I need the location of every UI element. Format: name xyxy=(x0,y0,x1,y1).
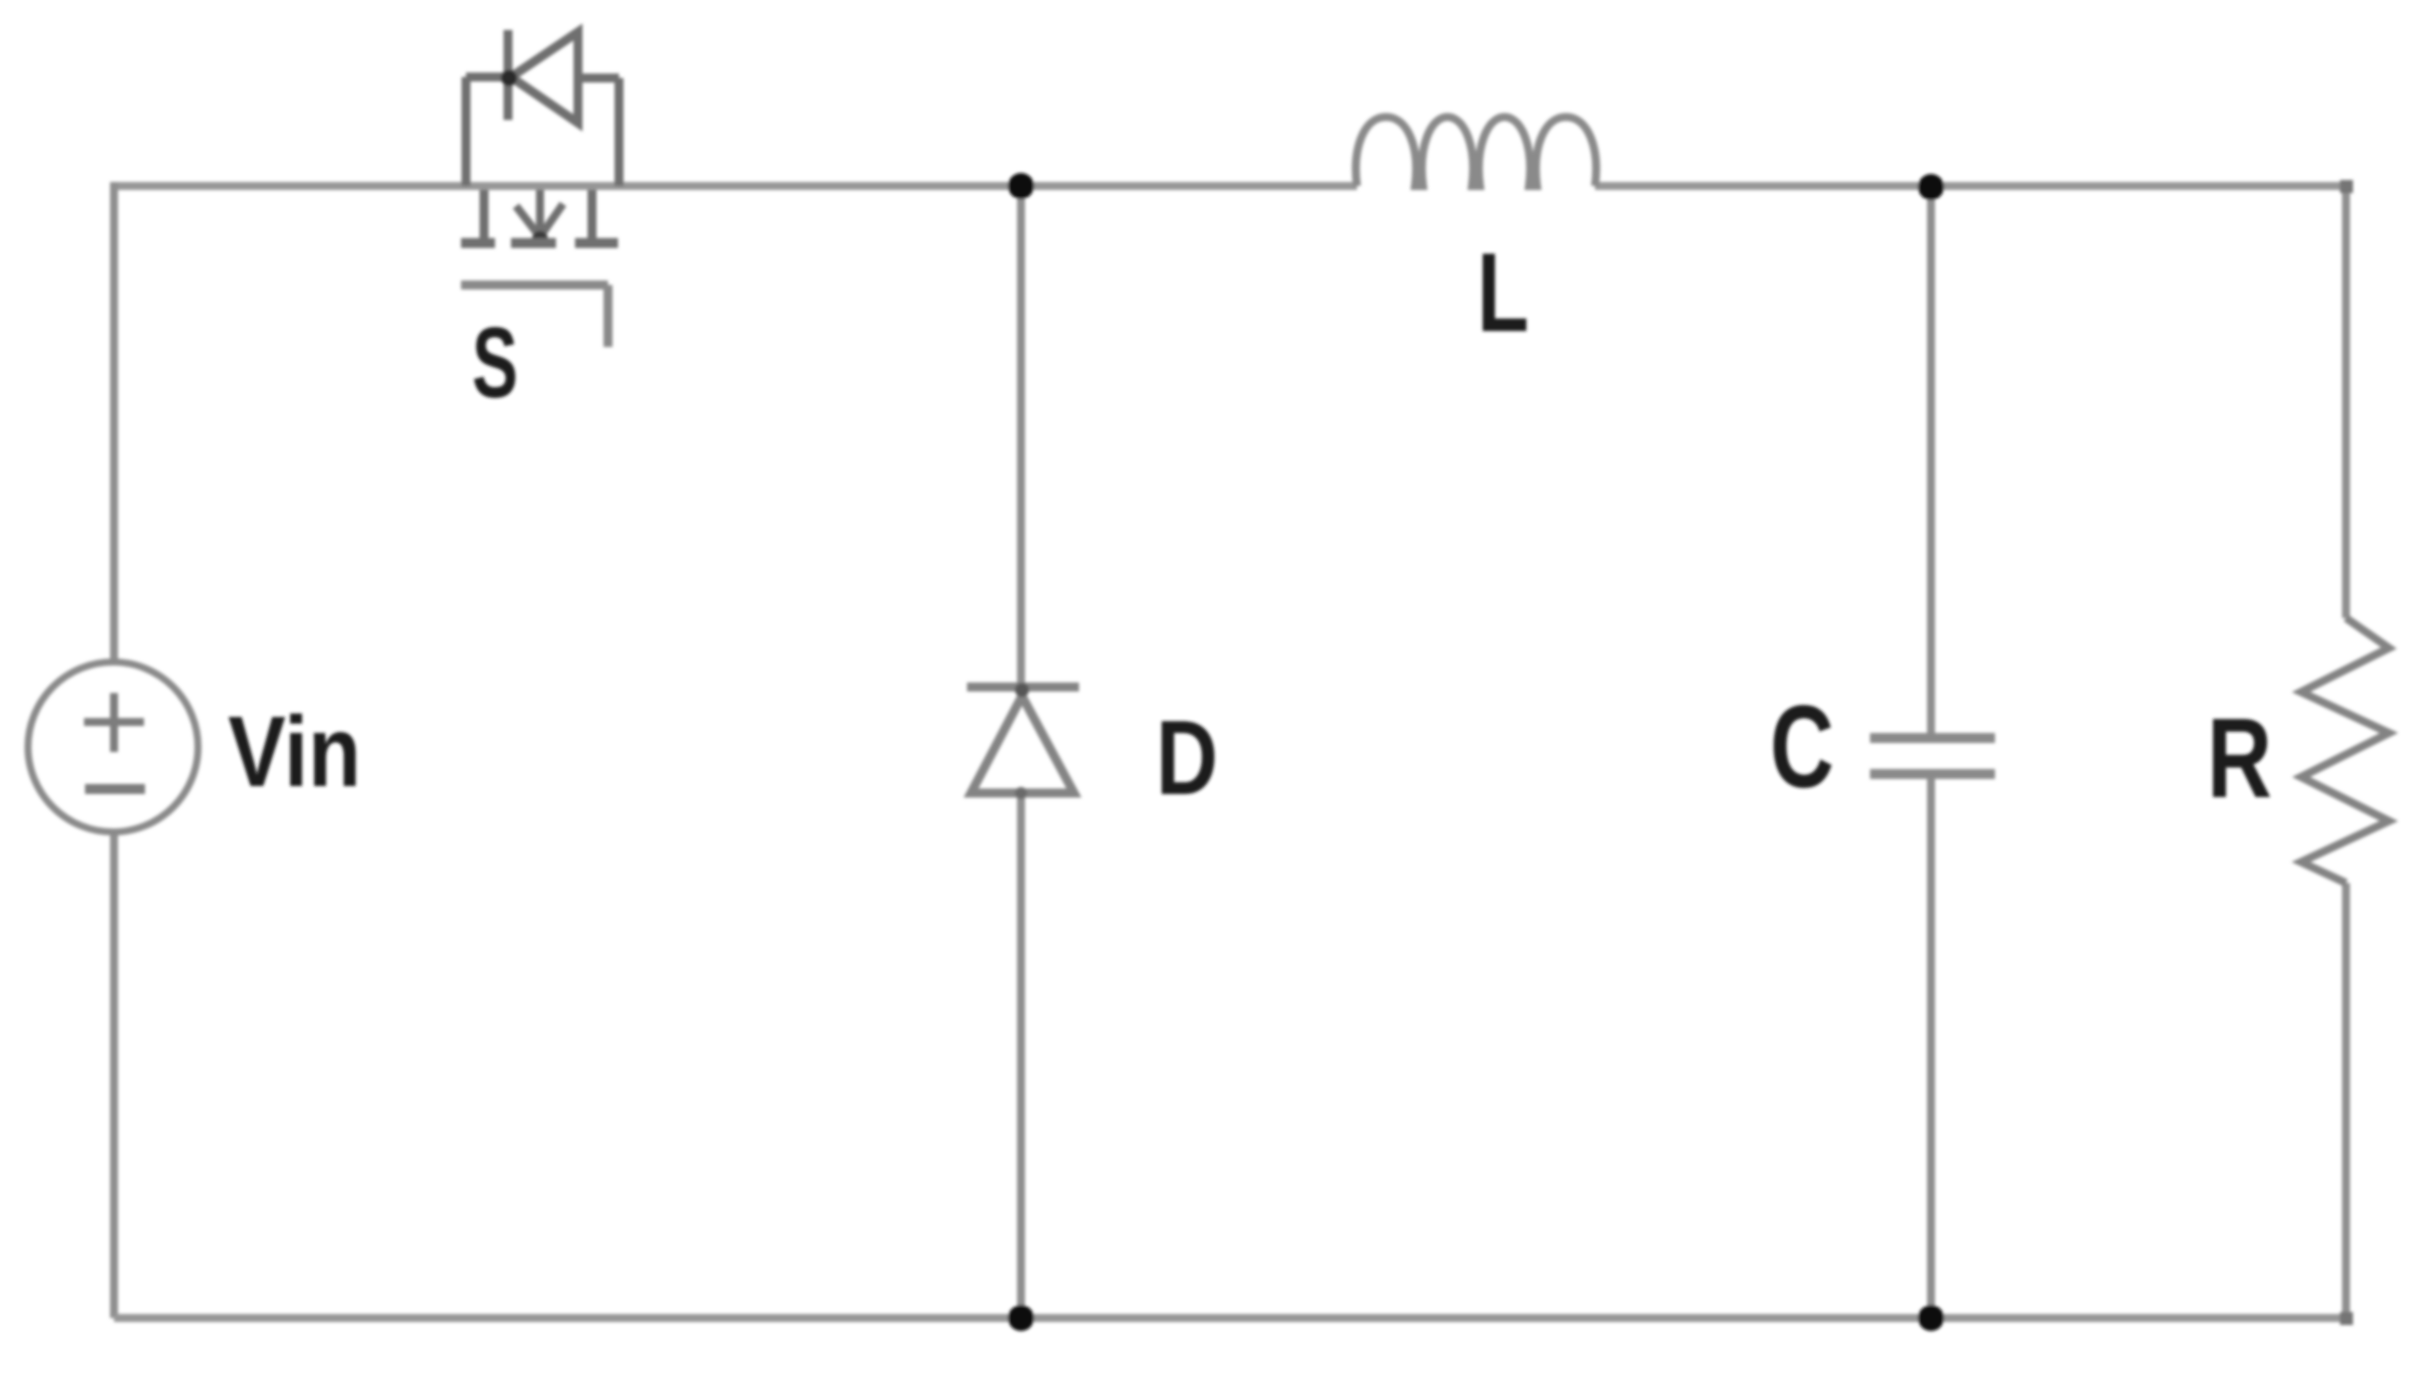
dark corner spot top-right xyxy=(2340,180,2353,193)
voltage source Vin (circle) xyxy=(28,662,198,832)
node junction dot (bottom of capacitor branch) xyxy=(1918,1305,1944,1331)
transistor S: channel pad left xyxy=(461,238,495,248)
transistor S: right (source) contact stub xyxy=(588,190,597,238)
dark corner spot bottom-right xyxy=(2340,1312,2353,1325)
transistor S: body arrow head xyxy=(516,204,563,237)
svg-text:L: L xyxy=(1477,230,1529,355)
transistor S: left (drain) contact stub xyxy=(480,190,489,238)
transistor S: body arrow shaft xyxy=(536,190,544,236)
switch S body-diode loop: right vertical wire xyxy=(615,78,624,186)
resistor R zigzag xyxy=(2301,618,2389,883)
wire: left rail lower (Vin bottom to bottom-left corner) xyxy=(110,832,118,1318)
diode D cathode bar xyxy=(967,683,1079,692)
inductor L coil xyxy=(1356,117,1596,186)
wire: right rail lower (resistor bottom to bottom-right corner) xyxy=(2342,883,2350,1318)
switch S body-diode loop: top-left horizontal wire xyxy=(466,73,505,82)
dark spot where diode apex meets cathode bar xyxy=(1015,683,1029,697)
wire: top rail left segment (left corner to switch area and on to node A) xyxy=(114,182,1357,190)
svg-text:R: R xyxy=(2207,695,2272,821)
wire: top rail right segment (inductor to top-right corner) xyxy=(1595,182,2346,190)
transistor S: gate bar xyxy=(461,281,608,290)
capacitor C top plate xyxy=(1870,733,1995,743)
transistor S: channel pad middle xyxy=(511,238,556,248)
svg-text:S: S xyxy=(472,307,518,419)
capacitor C bottom plate xyxy=(1870,769,1995,779)
switch S body diode cathode bar xyxy=(504,30,513,120)
junction dark spot where diode apex meets cathode bar xyxy=(501,70,517,86)
transistor S: channel pad right xyxy=(575,238,618,248)
wire: diode branch lower (diode anode down to bottom node) xyxy=(1017,794,1025,1318)
wire: diode branch upper (node A down to diode cathode bar) xyxy=(1017,186,1025,684)
wire: capacitor branch lower (bottom plate down to bottom rail) xyxy=(1927,778,1935,1318)
switch S body-diode loop: top-right horizontal wire xyxy=(578,74,619,83)
transistor S: gate lead going down xyxy=(604,285,613,347)
switch S body-diode loop: left vertical wire xyxy=(462,77,471,186)
node A junction dot (top of diode branch) xyxy=(1008,173,1034,199)
svg-text:Vin: Vin xyxy=(228,696,361,808)
node junction dot (bottom of diode branch) xyxy=(1008,1305,1034,1331)
wire: capacitor branch upper (node B down to top plate) xyxy=(1927,186,1935,734)
transistor S: arrow tip dark spot xyxy=(532,231,548,247)
wire: bottom rail xyxy=(114,1314,2346,1322)
voltage source minus sign xyxy=(85,784,145,794)
voltage source plus sign xyxy=(84,693,144,752)
switch S body diode triangle (anode, pointing left) xyxy=(511,32,578,123)
node B junction dot (top of capacitor branch) xyxy=(1918,174,1944,200)
svg-text:C: C xyxy=(1770,681,1834,812)
wire: left rail upper (top-left corner down to Vin top) xyxy=(110,182,118,662)
svg-text:D: D xyxy=(1156,699,1218,817)
wire: right rail upper (top-right corner down to resistor top) xyxy=(2342,186,2350,618)
diode D triangle (anode below, pointing up) xyxy=(971,696,1074,793)
dark spot where anode wire meets triangle base xyxy=(1015,787,1027,799)
